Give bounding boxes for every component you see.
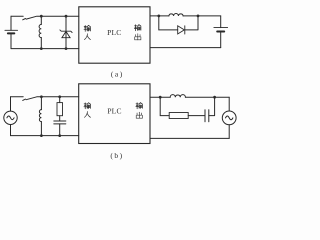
node: fig-b RC bottom junction — [58, 134, 61, 137]
resistor R1 (figure b left) — [57, 103, 63, 116]
wire: fig-b left bottom — [11, 135, 79, 137]
PLC box U1 (figure a) — [79, 7, 150, 63]
node: fig-a L1 bottom junction — [40, 47, 43, 50]
node: fig-a VZ1 bottom junction — [65, 47, 68, 50]
inductor L3 (figure b left) — [40, 97, 42, 110]
svg-text:PLC: PLC — [107, 107, 121, 116]
wire: fig-b left top (AC source to switch) — [11, 96, 24, 98]
zener diode VZ1 (figure a left) — [65, 16, 67, 48]
switch S2 (figure b) — [23, 97, 37, 101]
wire: fig-b right bottom — [150, 137, 229, 139]
resistor R2 (figure b right) — [169, 113, 188, 119]
node: fig-b L3 top junction — [40, 95, 43, 98]
wire: fig-b RC branch top lead — [59, 97, 61, 103]
wire: fig-b C2 to top wire rise — [209, 97, 215, 115]
capacitor C2 (figure b right) — [204, 110, 206, 122]
wire: fig-a right bottom — [150, 47, 221, 49]
svg-text:(b): (b) — [110, 151, 123, 160]
wire: fig-a right top (PLC output to coil) — [150, 15, 169, 17]
diode VD1 (figure a freewheel) — [178, 26, 185, 34]
capacitor C1 (figure b left) — [54, 120, 66, 122]
node: fig-a freewheel branch left junction — [157, 15, 160, 18]
node: fig-b RC top junction — [58, 95, 61, 98]
label: 输入 (input) in PLC box b — [84, 103, 91, 118]
AC source G1 (figure b left) — [10, 97, 12, 111]
wire: fig-a freewheel branch left drop — [159, 16, 178, 30]
svg-text:(a): (a) — [111, 69, 124, 78]
wire: fig-a left bottom — [11, 48, 79, 50]
AC source G2 (figure b right) — [228, 97, 230, 111]
svg-text:PLC: PLC — [107, 28, 121, 37]
inductor L2 (figure a right, on top wire) — [169, 14, 183, 16]
node: fig-a VZ1 top junction — [65, 15, 68, 18]
switch S1 (figure a) — [23, 16, 37, 20]
wire: fig-b RC branch left drop — [160, 97, 169, 115]
PLC box U2 (figure b) — [79, 84, 150, 144]
wire: fig-b right top (PLC output to coil) — [150, 96, 170, 98]
wire: fig-b top (switch to PLC input) — [37, 96, 78, 98]
inductor L1 (figure a left) — [40, 16, 42, 24]
node: fig-b RC branch left junction — [159, 96, 162, 99]
label: 输出 (output) in PLC box b — [136, 103, 143, 119]
wire: fig-a right top (coil to battery) — [183, 15, 221, 17]
battery GB2 (figure a right) — [220, 16, 222, 28]
wire: fig-b right top (coil to AC source) — [185, 96, 229, 98]
wire: fig-b R2 to C2 — [188, 115, 205, 117]
wire: fig-b R1 to C1 — [59, 116, 61, 121]
node: fig-a L1 top junction — [40, 15, 43, 18]
battery GB1 (figure a left) — [10, 16, 12, 30]
node: fig-b L3 bottom junction — [40, 134, 43, 137]
wire: fig-a top (switch to PLC input) — [37, 15, 79, 17]
wire: fig-a freewheel branch right rise — [185, 16, 198, 30]
node: fig-b RC branch right junction — [213, 96, 216, 99]
node: fig-a freewheel branch right junction — [197, 15, 200, 18]
label: 输出 (output) in PLC box a — [134, 25, 141, 40]
inductor L4 (figure b right, on top wire) — [170, 95, 185, 98]
wire: fig-a left top (battery to switch) — [11, 15, 23, 17]
label: 输入 (input) in PLC box a — [84, 25, 91, 39]
